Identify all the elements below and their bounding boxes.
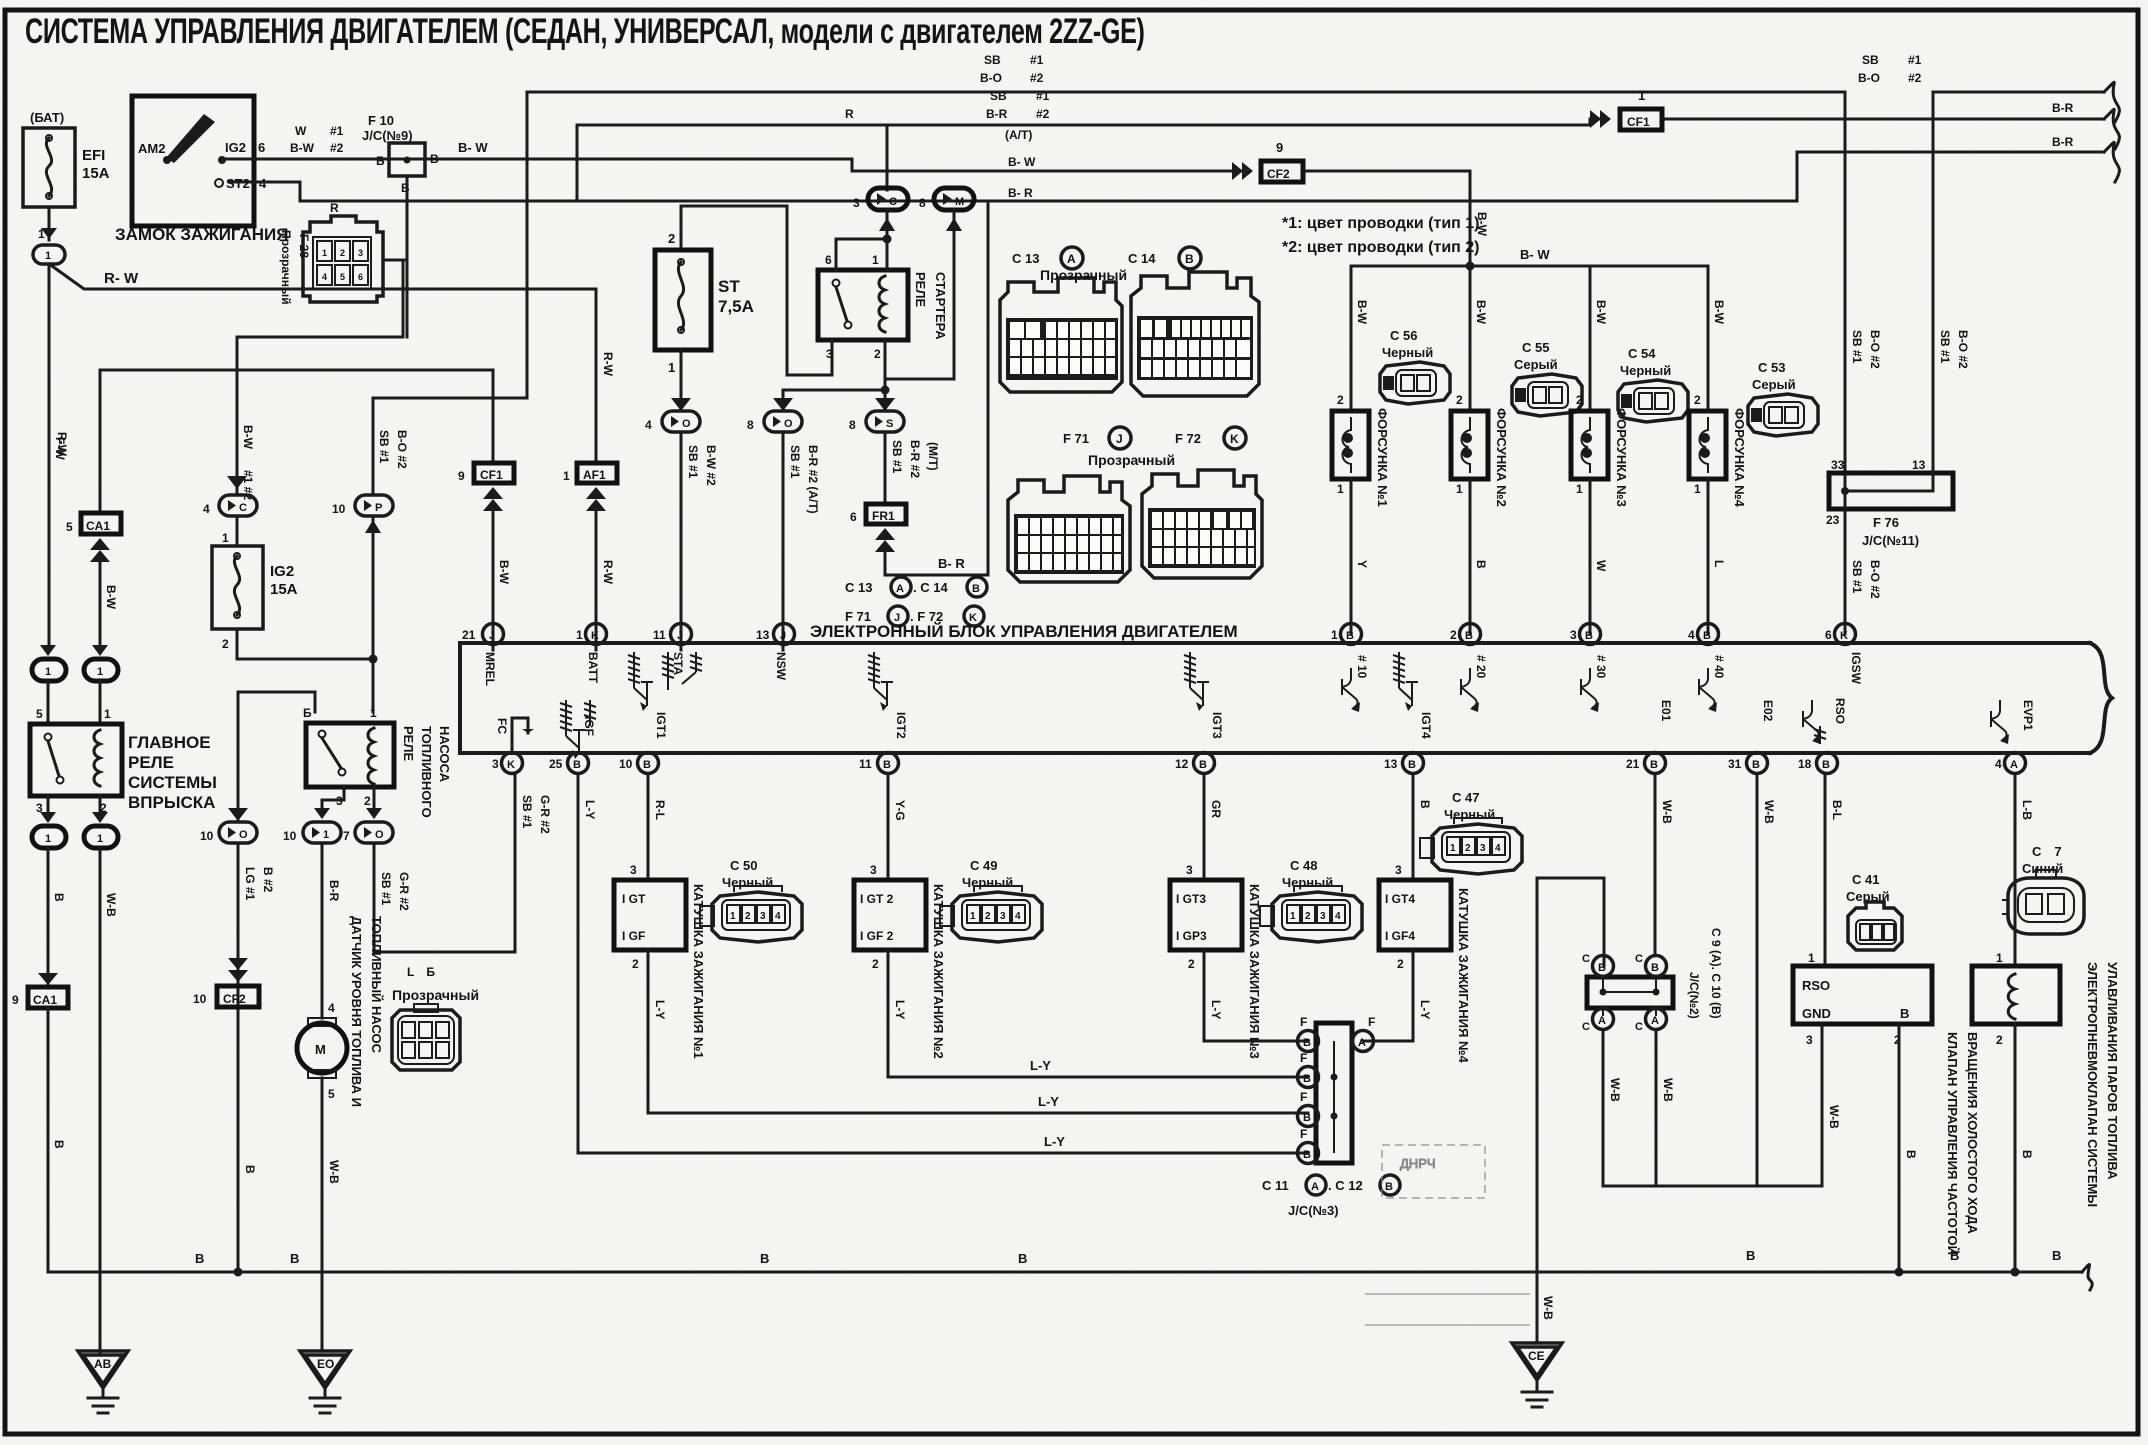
svg-text:W-B: W-B — [1661, 1078, 1675, 1102]
svg-text:J/C(№9): J/C(№9) — [362, 128, 413, 143]
svg-text:C: C — [1582, 953, 1590, 965]
right vertical SB/B-O to IGSW — [1844, 92, 1847, 634]
svg-text:Черный: Черный — [1282, 875, 1333, 890]
svg-text:1: 1 — [1694, 482, 1701, 496]
svg-text:#1: #1 — [330, 124, 344, 138]
svg-text:SB #1: SB #1 — [1938, 330, 1952, 364]
fuse EFI 15A (BAT) — [23, 110, 110, 241]
svg-text:AF1: AF1 — [583, 468, 606, 482]
svg-text:SB: SB — [984, 53, 1001, 67]
STA small ladders — [662, 652, 674, 690]
svg-text:C 50: C 50 — [730, 858, 757, 873]
EVAP valve — [1972, 774, 2120, 1207]
svg-text:ФОРСУНКА №1: ФОРСУНКА №1 — [1375, 408, 1390, 507]
svg-text:G-R #2: G-R #2 — [397, 872, 411, 911]
svg-text:I GF: I GF — [622, 929, 645, 943]
connector C41 — [1846, 872, 1902, 950]
svg-text:W-B: W-B — [1608, 1078, 1622, 1102]
wire IG2 out y=159 — [226, 159, 1243, 171]
svg-text:LG #1: LG #1 — [243, 867, 257, 901]
svg-text:ВПРЫСКА: ВПРЫСКА — [128, 793, 215, 812]
svg-text:FC: FC — [495, 718, 509, 734]
svg-text:1: 1 — [1808, 951, 1815, 965]
svg-text:(БАТ): (БАТ) — [30, 110, 64, 125]
svg-text:R: R — [845, 107, 854, 121]
svg-text:ЗАМОК ЗАЖИГАНИЯ: ЗАМОК ЗАЖИГАНИЯ — [115, 225, 288, 244]
svg-text:W-B: W-B — [1541, 1296, 1555, 1320]
ECU right curly edge — [2090, 643, 2112, 753]
svg-text:FR1: FR1 — [872, 509, 895, 523]
svg-text:CF2: CF2 — [1267, 167, 1290, 181]
svg-text:B- W: B- W — [458, 140, 488, 155]
svg-text:1: 1 — [1290, 911, 1296, 922]
svg-text:F-W: F-W — [53, 437, 67, 460]
E02 wire — [1756, 774, 1759, 1186]
relay pin3 to ST fuse — [681, 206, 832, 375]
EVP1 transistor — [1991, 700, 2009, 744]
svg-text:L-Y: L-Y — [1030, 1058, 1051, 1073]
svg-text:B-R #2: B-R #2 — [908, 440, 922, 478]
IGF wire to J/C3 — [578, 774, 1308, 1153]
svg-text:Синий: Синий — [2022, 861, 2063, 876]
svg-text:Прозрачный: Прозрачный — [279, 230, 293, 305]
svg-text:. C 12: . C 12 — [1328, 1178, 1363, 1193]
svg-text:B: B — [1018, 1251, 1027, 1266]
svg-text:IGSW: IGSW — [1849, 652, 1863, 685]
svg-text:B #2: B #2 — [261, 867, 275, 893]
svg-text:B: B — [195, 1251, 204, 1266]
svg-text:ТОПЛИВНЫЙ НАСОС: ТОПЛИВНЫЙ НАСОС — [369, 916, 384, 1054]
injector 3 — [1571, 266, 1629, 634]
svg-text:W: W — [1594, 560, 1608, 572]
svg-text:I GT4: I GT4 — [1385, 892, 1415, 906]
svg-text:1: 1 — [1337, 482, 1344, 496]
svg-text:C 48: C 48 — [1290, 858, 1317, 873]
svg-text:W-B: W-B — [1827, 1105, 1841, 1129]
svg-text:33: 33 — [1831, 458, 1845, 472]
svg-text:I GT3: I GT3 — [1176, 892, 1206, 906]
svg-text:B: B — [2052, 1248, 2061, 1263]
svg-text:3: 3 — [1186, 863, 1193, 877]
svg-text:Черный: Черный — [962, 875, 1013, 890]
connector C54 — [1618, 346, 1688, 422]
svg-text:6: 6 — [850, 510, 857, 524]
svg-text:ФОРСУНКА №4: ФОРСУНКА №4 — [1732, 408, 1747, 508]
svg-text:F 71: F 71 — [1063, 431, 1089, 446]
svg-text:8: 8 — [919, 196, 926, 210]
svg-text:ВРАЩЕНИЯ ХОЛОСТОГО ХОДА: ВРАЩЕНИЯ ХОЛОСТОГО ХОДА — [1965, 1032, 1980, 1235]
svg-text:3: 3 — [1480, 843, 1486, 854]
svg-text:11: 11 — [653, 628, 666, 642]
svg-text:10: 10 — [193, 992, 207, 1006]
svg-text:C 14: C 14 — [1128, 251, 1156, 266]
svg-text:B: B — [1185, 252, 1194, 266]
svg-text:B: B — [1303, 1073, 1311, 1085]
svg-text:W-B: W-B — [1762, 800, 1776, 824]
oval connector 4(IC above IG2 fuse — [203, 476, 257, 516]
connector block F72 — [1142, 470, 1262, 578]
svg-text:A: A — [1067, 252, 1076, 266]
svg-text:7,5A: 7,5A — [718, 297, 754, 316]
svg-text:ДАТЧИК УРОВНЯ ТОПЛИВА И: ДАТЧИК УРОВНЯ ТОПЛИВА И — [349, 916, 364, 1107]
svg-text:5: 5 — [36, 707, 43, 721]
svg-text:1: 1 — [97, 666, 103, 678]
svg-text:L Б: L Б — [407, 965, 435, 979]
junction FR1 — [850, 504, 906, 552]
svg-text:Y: Y — [1355, 560, 1369, 568]
svg-text:ЭЛЕКТРОННЫЙ БЛОК УПРАВЛЕНИЯ ДВ: ЭЛЕКТРОННЫЙ БЛОК УПРАВЛЕНИЯ ДВИГАТЕЛЕМ — [810, 622, 1238, 641]
svg-text:#1: #1 — [1908, 53, 1922, 67]
svg-text:E01: E01 — [1659, 700, 1673, 722]
svg-text:2: 2 — [668, 231, 675, 246]
svg-text:Б: Б — [303, 706, 312, 720]
svg-text:B- W: B- W — [1008, 155, 1036, 169]
injector 2 — [1451, 266, 1509, 634]
injector B-W bus — [1351, 265, 1708, 268]
svg-text:I GT 2: I GT 2 — [860, 892, 894, 906]
svg-text:B-W #2: B-W #2 — [704, 445, 718, 486]
svg-text:I GF4: I GF4 — [1385, 929, 1415, 943]
oval 8(IO (NSW column) — [747, 398, 802, 432]
svg-text:B: B — [1703, 630, 1711, 642]
svg-text:R-W: R-W — [601, 352, 615, 377]
svg-text:B-L: B-L — [1830, 800, 1844, 820]
svg-text:SB #1: SB #1 — [788, 445, 802, 479]
svg-text:E02: E02 — [1761, 700, 1775, 722]
svg-text:CA1: CA1 — [86, 519, 110, 533]
svg-text:4: 4 — [203, 502, 210, 516]
wire fuse to oval — [48, 207, 51, 240]
svg-text:ST: ST — [718, 277, 740, 296]
ground EO — [300, 1351, 350, 1413]
svg-text:J: J — [489, 630, 495, 642]
svg-text:IGT3: IGT3 — [1210, 712, 1224, 739]
svg-text:B-W: B-W — [1594, 300, 1608, 325]
RSO GND drop — [1821, 1024, 1824, 1186]
svg-text:1: 1 — [1456, 482, 1463, 496]
svg-text:5: 5 — [340, 272, 345, 282]
svg-text:3: 3 — [760, 911, 766, 922]
svg-text:F 28: F 28 — [297, 234, 311, 258]
svg-text:Прозрачный: Прозрачный — [1040, 267, 1127, 283]
svg-text:A: A — [2010, 759, 2018, 771]
svg-text:CF1: CF1 — [480, 468, 503, 482]
svg-text:SB #1: SB #1 — [686, 445, 700, 479]
svg-text:#2: #2 — [330, 141, 344, 155]
svg-text:СТАРТЕРА: СТАРТЕРА — [933, 272, 948, 340]
svg-text:B: B — [883, 759, 891, 771]
ECU top pins — [462, 624, 1863, 687]
svg-text:1: 1 — [370, 706, 377, 720]
arrow into oval 1 — [41, 228, 57, 239]
svg-text:SB #1: SB #1 — [377, 430, 391, 464]
svg-text:G-R #2: G-R #2 — [538, 795, 552, 834]
IGF double ladder — [560, 700, 585, 759]
svg-text:F 72: F 72 — [1175, 431, 1201, 446]
connector C49 — [940, 858, 1042, 942]
svg-text:3: 3 — [1000, 911, 1006, 922]
svg-text:C 7: C 7 — [2032, 844, 2062, 859]
J/C2 A-pins down to 1186 rail — [1603, 1030, 1822, 1186]
svg-text:J/C(№3): J/C(№3) — [1288, 1203, 1339, 1218]
svg-text:EFI: EFI — [82, 147, 105, 164]
connector C55 — [1512, 340, 1582, 416]
svg-text:IGT1: IGT1 — [654, 712, 668, 739]
svg-text:F: F — [1300, 1090, 1307, 1104]
svg-text:3: 3 — [1570, 628, 1577, 642]
svg-text:B-O #2: B-O #2 — [1868, 560, 1882, 599]
svg-text:L-Y: L-Y — [1044, 1134, 1065, 1149]
svg-text:SB #1: SB #1 — [520, 795, 534, 829]
svg-text:B: B — [972, 583, 980, 595]
svg-text:РЕЛЕ: РЕЛЕ — [401, 726, 416, 761]
fuse ST 7.5A — [655, 231, 754, 375]
svg-text:3: 3 — [1806, 1033, 1813, 1047]
svg-text:1: 1 — [668, 360, 675, 375]
svg-text:3: 3 — [870, 863, 877, 877]
svg-text:B: B — [1822, 759, 1830, 771]
svg-text:2: 2 — [1305, 911, 1311, 922]
svg-text:2: 2 — [340, 248, 345, 258]
svg-text:B-R #2 (A/T): B-R #2 (A/T) — [806, 445, 820, 514]
connector C50 — [700, 858, 802, 942]
svg-text:2: 2 — [874, 347, 881, 361]
svg-text:1: 1 — [45, 833, 51, 845]
svg-text:1: 1 — [323, 829, 329, 841]
svg-text:B: B — [52, 1140, 66, 1149]
svg-text:B: B — [1408, 759, 1416, 771]
svg-text:B- W: B- W — [1520, 247, 1550, 262]
svg-text:13: 13 — [756, 628, 770, 642]
ECU bottom pins — [492, 698, 2035, 774]
B bus bottom — [48, 1271, 2082, 1274]
svg-text:C 11: C 11 — [1262, 1178, 1289, 1193]
svg-text:W-B: W-B — [327, 1160, 341, 1184]
coil 4 — [1363, 774, 1471, 1063]
svg-text:IGT2: IGT2 — [894, 712, 908, 739]
wire oval7 to FC — [374, 774, 515, 952]
svg-text:3: 3 — [853, 196, 860, 210]
svg-text:9: 9 — [12, 993, 19, 1007]
svg-text:F: F — [1300, 1051, 1307, 1065]
svg-text:L-Y: L-Y — [1418, 1000, 1432, 1019]
svg-text:1: 1 — [1331, 628, 1338, 642]
svg-text:11: 11 — [859, 757, 872, 771]
svg-text:B-O #2: B-O #2 — [1956, 330, 1970, 369]
svg-text:3: 3 — [630, 863, 637, 877]
svg-text:7: 7 — [343, 829, 350, 843]
CA1 bottom junction — [12, 973, 68, 1008]
svg-text:BATT: BATT — [586, 652, 600, 684]
svg-text:J: J — [677, 630, 683, 642]
oval 4(IO (STA column) — [645, 398, 700, 432]
svg-text:I GP3: I GP3 — [1176, 929, 1207, 943]
svg-text:1: 1 — [730, 911, 736, 922]
svg-text:B: B — [1303, 1149, 1311, 1161]
svg-text:2: 2 — [1397, 957, 1404, 971]
svg-text:Б: Б — [376, 154, 385, 168]
svg-text:A: A — [1311, 1181, 1319, 1193]
svg-text:#1: #1 — [1030, 53, 1044, 67]
svg-text:РЕЛЕ: РЕЛЕ — [128, 753, 174, 772]
svg-text:C: C — [1635, 953, 1643, 965]
svg-text:B-W: B-W — [1474, 300, 1488, 325]
svg-text:15A: 15A — [82, 165, 110, 182]
svg-text:6: 6 — [825, 253, 832, 267]
ovals below fuel pump relay — [322, 787, 344, 808]
coil 1 — [614, 774, 1308, 1113]
svg-text:R: R — [330, 201, 339, 215]
oval 8(IM — [919, 188, 974, 231]
svg-text:4: 4 — [645, 418, 652, 432]
wire AF1 riser (R-W) — [595, 289, 598, 463]
svg-text:3: 3 — [1395, 863, 1402, 877]
connector C7 — [2002, 844, 2084, 934]
svg-text:4: 4 — [1495, 843, 1501, 854]
svg-text:W-B: W-B — [1660, 800, 1674, 824]
svg-text:O: O — [784, 418, 793, 430]
svg-text:C 49: C 49 — [970, 858, 997, 873]
svg-text:K: K — [507, 759, 515, 771]
oval terminals 1 above main relay — [32, 645, 66, 681]
svg-text:4: 4 — [322, 272, 327, 282]
svg-text:SB #1: SB #1 — [890, 440, 904, 474]
svg-text:B: B — [1474, 560, 1488, 569]
svg-text:P: P — [375, 502, 382, 514]
CA1 junction (5 CA1) — [66, 513, 121, 562]
svg-text:12: 12 — [1175, 757, 1189, 771]
svg-text:L-Y: L-Y — [583, 800, 597, 819]
svg-text:C 55: C 55 — [1522, 340, 1549, 355]
svg-text:O: O — [682, 418, 691, 430]
svg-text:J/C(№2): J/C(№2) — [1687, 972, 1701, 1019]
RSO B drop — [1898, 1024, 1901, 1272]
connector C56 — [1380, 328, 1450, 404]
CE ground wire — [1537, 878, 1604, 1343]
wire x527 from SB top line down to oval10P riser — [373, 92, 527, 495]
svg-text:W-B: W-B — [104, 893, 118, 917]
svg-text:5: 5 — [66, 520, 73, 534]
svg-text:2: 2 — [364, 794, 371, 808]
wire IG2 fuse bottom joins 10P column — [237, 629, 373, 659]
svg-text:C: C — [889, 196, 897, 208]
svg-text:1: 1 — [104, 707, 111, 721]
connector F28 (6pin) — [279, 201, 383, 305]
svg-text:2: 2 — [1450, 628, 1457, 642]
svg-text:AM2: AM2 — [138, 141, 165, 156]
svg-text:B-W: B-W — [290, 141, 315, 155]
svg-text:УЛАВЛИВАНИЯ ПАРОВ ТОПЛИВА: УЛАВЛИВАНИЯ ПАРОВ ТОПЛИВА — [2105, 962, 2120, 1180]
svg-text:B: B — [430, 152, 439, 166]
svg-text:1: 1 — [872, 253, 879, 267]
svg-text:2: 2 — [1337, 393, 1344, 407]
svg-text:R-W: R-W — [601, 560, 615, 585]
wire R line y=125 — [577, 125, 887, 201]
connector block C14 — [1131, 272, 1259, 396]
J/C(No2) — [1582, 928, 1723, 1033]
svg-text:L: L — [1712, 560, 1726, 567]
svg-text:SB: SB — [990, 89, 1007, 103]
svg-text:1: 1 — [222, 531, 229, 545]
right edge wire curls — [2104, 82, 2119, 122]
svg-text:CA1: CA1 — [33, 993, 57, 1007]
svg-text:B-O #2: B-O #2 — [395, 430, 409, 469]
fuel pump relay — [303, 706, 452, 818]
E01 wire — [1654, 774, 1657, 955]
svg-text:S: S — [886, 418, 893, 430]
svg-text:J: J — [780, 630, 786, 642]
svg-text:C 53: C 53 — [1758, 360, 1785, 375]
svg-text:ГЛАВНОЕ: ГЛАВНОЕ — [128, 733, 211, 752]
svg-text:КАТУШКА ЗАЖИГАНИЯ №4: КАТУШКА ЗАЖИГАНИЯ №4 — [1456, 888, 1471, 1063]
svg-text:ФОРСУНКА №2: ФОРСУНКА №2 — [1494, 408, 1509, 507]
svg-text:РЕЛЕ: РЕЛЕ — [913, 272, 928, 307]
svg-text:A: A — [1358, 1037, 1366, 1049]
wire CA1 riser to CF1 — [100, 370, 493, 513]
svg-text:1: 1 — [1450, 843, 1456, 854]
main relay box — [30, 724, 217, 815]
svg-text:3: 3 — [492, 757, 499, 771]
junction box J/C No9 F10 — [362, 113, 488, 195]
coil 3 — [1170, 774, 1308, 1059]
svg-text:2: 2 — [1576, 393, 1583, 407]
svg-text:F: F — [1368, 1015, 1375, 1029]
svg-text:B: B — [2020, 1150, 2034, 1159]
svg-text:1: 1 — [576, 628, 583, 642]
svg-text:B-W: B-W — [1712, 300, 1726, 325]
svg-text:4: 4 — [1995, 757, 2002, 771]
svg-text:B: B — [1651, 962, 1659, 974]
wire R-W diagonal and horizontal — [48, 264, 51, 650]
ECU top line — [460, 641, 2090, 645]
fuel pump motor — [321, 843, 324, 1018]
fuse IG2 15A — [212, 531, 298, 651]
svg-text:B: B — [1303, 1112, 1311, 1124]
svg-text:1: 1 — [970, 911, 976, 922]
ignition switch box — [115, 96, 288, 244]
svg-text:ТОПЛИВНОГО: ТОПЛИВНОГО — [419, 726, 434, 818]
svg-text:1: 1 — [322, 248, 327, 258]
svg-text:A: A — [896, 583, 904, 595]
svg-text:B-O: B-O — [1858, 71, 1880, 85]
oval 8(IS — [849, 398, 904, 432]
svg-text:L-Y: L-Y — [653, 1000, 667, 1019]
svg-text:10: 10 — [200, 829, 214, 843]
svg-text:10: 10 — [619, 757, 633, 771]
svg-text:13: 13 — [1912, 458, 1926, 472]
svg-text:B-W: B-W — [241, 425, 255, 450]
svg-text:Y-G: Y-G — [893, 800, 907, 821]
oval terminal 1 (BAT) — [33, 245, 65, 264]
svg-text:Серый: Серый — [1514, 357, 1558, 372]
svg-text:B: B — [760, 1251, 769, 1266]
svg-text:C 9 (A). C 10 (B): C 9 (A). C 10 (B) — [1709, 928, 1723, 1019]
svg-text:B: B — [1900, 1006, 1909, 1021]
svg-text:B: B — [1904, 1150, 1918, 1159]
svg-text:B: B — [573, 759, 581, 771]
svg-text:F 76: F 76 — [1873, 515, 1899, 530]
wire ST2 out y=182->201 — [230, 152, 2104, 201]
CF2 bottom junction — [193, 958, 259, 1007]
svg-text:*1: цвет проводки (тип 1): *1: цвет проводки (тип 1) — [1282, 215, 1480, 232]
svg-text:1: 1 — [1576, 482, 1583, 496]
svg-text:5: 5 — [328, 1087, 335, 1101]
svg-text:2: 2 — [1694, 393, 1701, 407]
svg-text:Черный: Черный — [1620, 363, 1671, 378]
svg-text:B: B — [1418, 800, 1432, 809]
svg-text:A: A — [1598, 1015, 1606, 1027]
svg-text:4: 4 — [1015, 911, 1021, 922]
